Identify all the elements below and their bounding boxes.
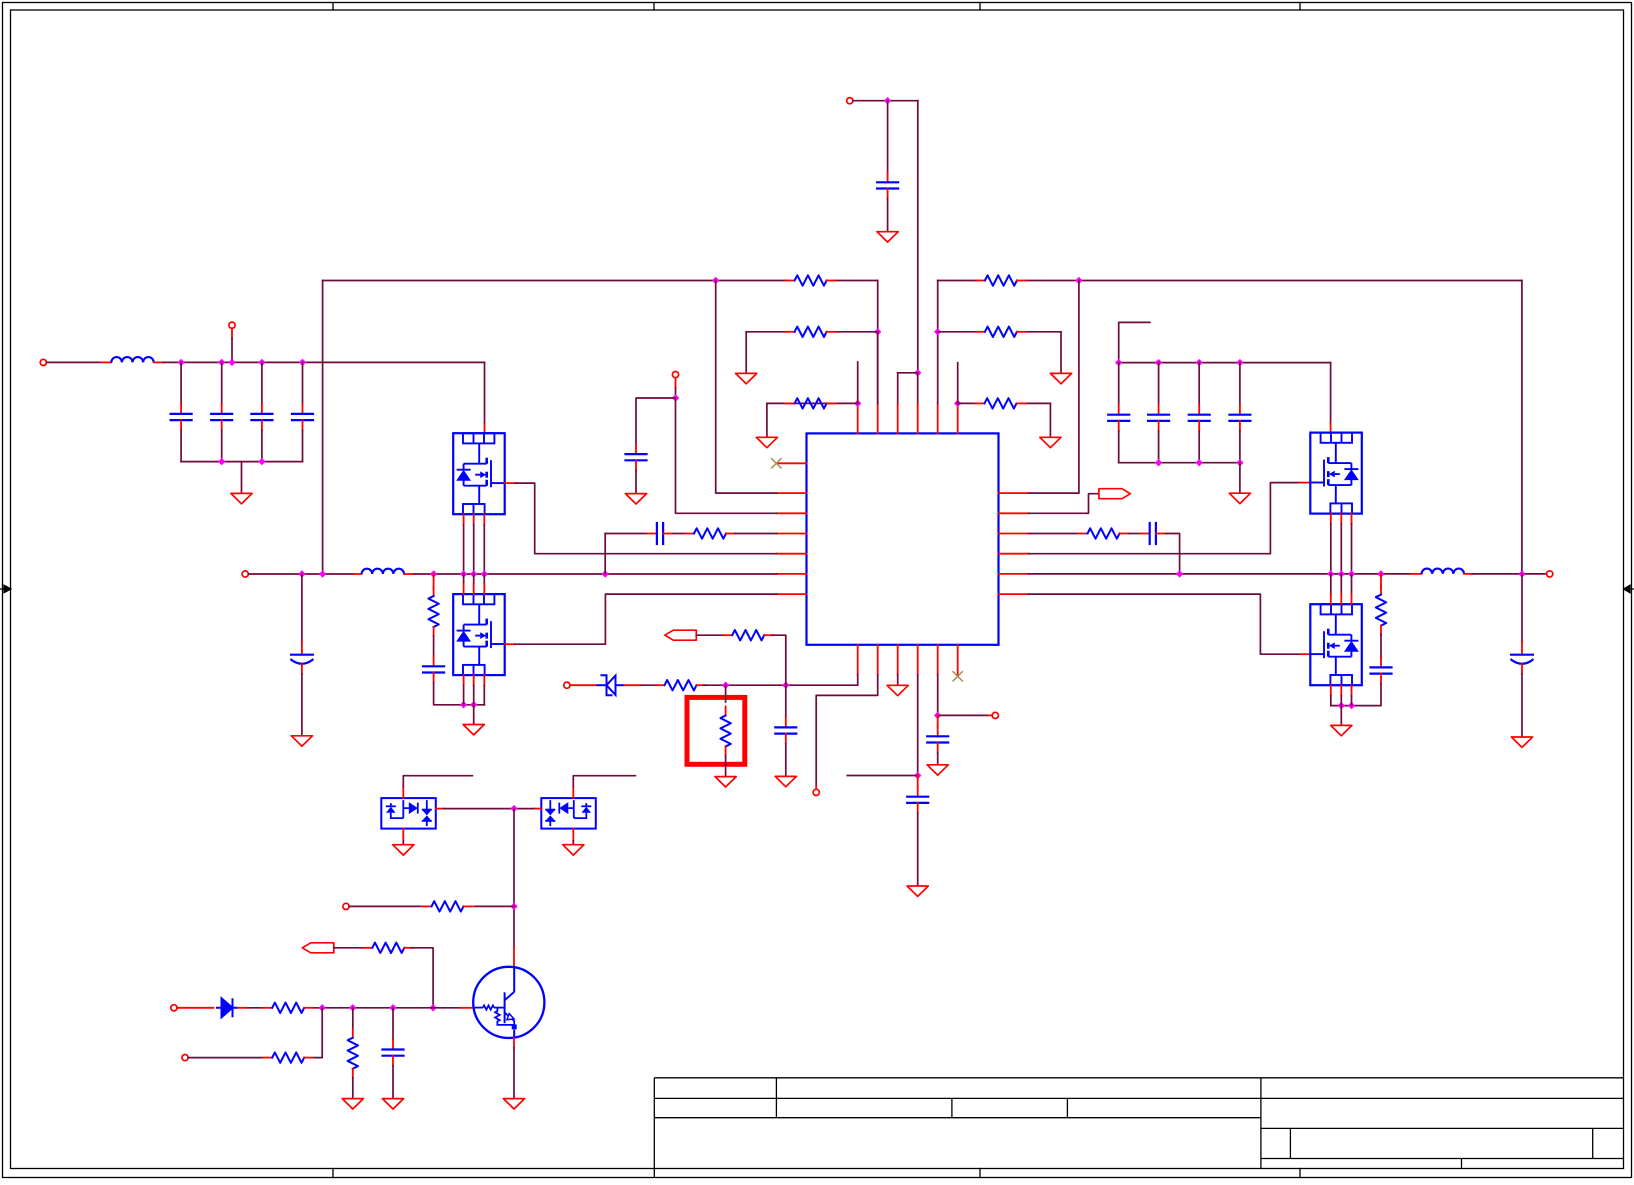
junction C6 (298, 570, 305, 577)
wire row2 left to ground (745, 332, 747, 373)
wire C16 to ground (785, 744, 787, 777)
junction J3 (228, 359, 235, 366)
ground row3 left (756, 437, 777, 447)
capacitor C8 (635, 444, 637, 454)
ground Q5 (503, 1099, 524, 1109)
wire row2 right (938, 331, 977, 333)
U1 right pin 5 (999, 573, 1029, 575)
wire output cap down (1521, 574, 1523, 642)
wire U1 to Q4 gate (1029, 594, 1301, 654)
wire Q4 source 2 (1340, 696, 1342, 706)
Q4 source pin 2 (1340, 685, 1342, 695)
wire top net down to IC (917, 101, 919, 373)
wire row3 right to ground (1049, 403, 1051, 437)
sheet connector arrow mid (665, 630, 697, 640)
wire to C14 (1239, 363, 1241, 405)
zone tick top 2 (653, 3, 655, 11)
Q4 drain pin 1 (1330, 574, 1332, 594)
zone tick top 4 (1299, 3, 1301, 11)
ground C19 (382, 1099, 403, 1109)
wire row3 right (958, 402, 977, 404)
junction Q pin c (481, 570, 488, 577)
wire SW rail right a (1029, 573, 1411, 575)
wire C3 to bottom rail (261, 430, 263, 461)
wire SW rail left a (248, 573, 353, 575)
wire input rail corner down to Q1 (484, 362, 486, 423)
op-amp U1 controller IC body (807, 433, 999, 644)
no-connect X left pin (771, 458, 781, 468)
wire Q5 emitter to ground (513, 1048, 515, 1098)
wire R15 corner to base row (411, 948, 433, 1008)
D3 top pin (572, 787, 574, 798)
zone tick top 1 (332, 3, 334, 11)
terminal J1 top (847, 98, 853, 104)
title block outline (654, 1078, 1623, 1178)
wire R8 to U1 (735, 533, 777, 535)
wire D1 to R11 (625, 684, 642, 686)
U1 top pin 5 (937, 403, 939, 433)
wire Q1 source 1 to SW rail (463, 525, 465, 574)
terminal J3 vin sense (229, 322, 235, 328)
diode D1 zener (597, 675, 625, 695)
Q2 drain pin 3 (483, 574, 485, 584)
U1 bottom pin 6 (957, 645, 959, 675)
diode D4 (216, 998, 238, 1017)
U1 bottom pin 3 (897, 645, 899, 675)
wire Q3 source 2 to SW rail (1340, 524, 1342, 574)
junction base row c (389, 1004, 396, 1011)
capacitor C12 (1158, 405, 1160, 415)
wire input cap bottom rail (181, 461, 302, 463)
wire C5 to ground (887, 199, 889, 232)
terminal J5 (672, 372, 678, 378)
wire C12 bottom (1158, 431, 1160, 463)
wire D3 to node (514, 808, 534, 810)
wire row1 right (938, 280, 977, 282)
junction Q pin b (470, 570, 477, 577)
wire R11 to U1 bottom net (704, 684, 858, 686)
capacitor C17 (917, 787, 919, 797)
junction pin4 net (914, 772, 921, 779)
ground C5 (877, 232, 898, 242)
wire U1 top pin2 riser (877, 332, 879, 404)
U1 left pin 7 (777, 593, 807, 595)
U1 top pin 6 (957, 403, 959, 433)
ground row2 right (1050, 373, 1071, 383)
terminal J12 (182, 1055, 188, 1061)
zone tick bottom 1 (332, 1169, 334, 1178)
wire C1 to bottom rail (180, 430, 182, 461)
wire pin5 to J9 (938, 714, 989, 716)
Q1 gate pin stub (505, 482, 516, 484)
U1 top pin 4 (917, 403, 919, 433)
capacitor C11 (1118, 405, 1120, 415)
junction snubber R7 (430, 570, 437, 577)
terminal J7 (564, 682, 570, 688)
resistor R17 (263, 1057, 272, 1059)
U1 right pin 4 (999, 553, 1029, 555)
wire R9 to C10 (1129, 533, 1140, 535)
wire R18 to ground (352, 1078, 354, 1099)
wire C19 to ground (392, 1066, 394, 1099)
terminal J8 (813, 789, 819, 795)
diode array D2 (381, 798, 436, 829)
wire Q2 source 3 (483, 686, 485, 705)
Q3 source pin 3 (1351, 514, 1353, 524)
junction Q pin a (460, 570, 467, 577)
wire J5 down (675, 378, 677, 388)
wire R17 corner to base row (314, 1008, 322, 1058)
wire C2 to bottom rail (221, 430, 223, 461)
wire to capacitor C5 (887, 101, 889, 173)
junction R12 top (722, 682, 729, 689)
ground U1 pin3 (887, 685, 908, 695)
Q2 source pin 2 (473, 675, 475, 685)
wire R13 corner down (772, 635, 786, 685)
junction right bank bottom 2 (1196, 459, 1203, 466)
D3 left pin (534, 808, 541, 810)
wire Q2 source 2 (473, 686, 475, 705)
ground input caps (231, 493, 252, 503)
transistor Q1 power MOSFET (453, 433, 505, 514)
D2 right pin (436, 808, 443, 810)
U1 bottom pin 2 (877, 645, 879, 675)
wire input rail (163, 361, 484, 363)
Q2 source pin 1 (463, 675, 465, 685)
junction RC right (1176, 570, 1183, 577)
wire C15 to source rail (1331, 684, 1381, 706)
junction row1 riser (319, 570, 326, 577)
junction base drive (510, 903, 517, 910)
Q5 collector stub (513, 947, 515, 967)
Q3 source pin 2 (1340, 514, 1342, 524)
wire row2 right to ground (1060, 332, 1062, 373)
Q2 drain pin 1 (463, 574, 465, 584)
U1 bottom pin 4 (917, 645, 919, 675)
wire C17 to ground (917, 813, 919, 886)
resistor R15 (363, 947, 372, 949)
U1 right pin 2 (999, 512, 1029, 514)
junction cap C2 (218, 359, 225, 366)
Q3 gate pin stub (1300, 482, 1310, 484)
junction right bank bottom 3 (1236, 459, 1243, 466)
Q4 drain pin 2 (1340, 574, 1342, 594)
wire to C3 (261, 362, 263, 403)
junction diode node (510, 805, 517, 812)
wire Q1 source 3 to SW rail (483, 525, 485, 574)
inductor L2 (354, 573, 362, 575)
resistor R8 (685, 533, 694, 535)
Q2 gate pin stub (505, 643, 515, 645)
ground C17 (907, 886, 928, 896)
wire to C12 (1158, 363, 1160, 405)
resistor R12 (725, 707, 727, 716)
sheet connector arrow right (1099, 489, 1131, 499)
diode array D3 (541, 798, 596, 829)
capacitor C13 (1198, 405, 1200, 415)
wire C11 bottom (1118, 431, 1120, 463)
resistor R7 snubber (433, 587, 435, 596)
wire J5 net to C8 (636, 398, 676, 444)
transistor Q2 power MOSFET (453, 594, 505, 675)
capacitor C5 (887, 172, 889, 182)
ground right bank (1229, 493, 1250, 503)
resistor R18 (352, 1029, 354, 1038)
Q1 source pin 2 (473, 514, 475, 524)
junction C16 top (782, 682, 789, 689)
wire C14 to ground (1521, 674, 1523, 737)
wire Q4 source 1 (1330, 696, 1332, 706)
Q2 drain pin 2 (473, 574, 475, 584)
wire right bank bottom rail (1119, 462, 1240, 464)
wire row1 right end down to SW rail (1521, 281, 1523, 574)
U1 right pin 1 (999, 492, 1029, 494)
junction C13 top (1196, 359, 1203, 366)
junction row3 right pin (954, 400, 961, 407)
U1 top pin 1 (857, 403, 859, 433)
wire to C4 (302, 362, 304, 403)
ground C14 (1511, 737, 1532, 747)
wire D2 to node (443, 808, 514, 810)
highlight box around R12 (687, 697, 745, 764)
wire node down to Q5 (513, 809, 515, 947)
junction row1 right (1075, 277, 1082, 284)
ground row2 left (736, 373, 757, 383)
wire Q2 source 1 (463, 686, 465, 705)
resistor R14 (423, 905, 432, 907)
resistor R6 (976, 402, 985, 404)
wire R12 to ground (725, 756, 727, 777)
capacitor C2 (221, 404, 223, 414)
wire C13 bottom (1198, 431, 1200, 463)
wire C14 bottom (1239, 431, 1241, 463)
capacitor C3 (261, 404, 263, 414)
wire C8 to ground (635, 470, 637, 493)
wire to C19 (392, 1008, 394, 1040)
junction row3 left pin (854, 400, 861, 407)
wire Q1 gate to U1 (515, 483, 776, 554)
U1 bottom pin 1 (857, 645, 859, 675)
U1 right pin 3 (999, 533, 1029, 535)
zone arrow right (1624, 585, 1634, 593)
transistor Q5 digital NPN (473, 967, 544, 1038)
junction base row a (319, 1004, 326, 1011)
wire R10 to C15 (1380, 635, 1382, 658)
junction top net (884, 97, 891, 104)
inductor L1 (101, 361, 111, 363)
wire bottom rail to ground (241, 462, 243, 494)
transistor Q4 power MOSFET (1310, 604, 1362, 685)
wire to C11 (1118, 363, 1120, 405)
junction J5 net (672, 394, 679, 401)
U1 left pin 4 (777, 533, 807, 535)
U1 left pin 1 (777, 462, 807, 464)
resistor R5 (976, 331, 985, 333)
junction Q3 pin c (1348, 570, 1355, 577)
D2 top pin (402, 787, 404, 798)
wire jog to pin (898, 372, 918, 374)
junction right bank bottom 1 (1155, 459, 1162, 466)
junction right source rail a (1338, 702, 1345, 709)
inductor L3 (1411, 573, 1422, 575)
zone tick top 3 (979, 3, 981, 11)
capacitor C19 (392, 1040, 394, 1050)
terminal J2 input (40, 359, 46, 365)
wire arrow to R13 (696, 634, 724, 636)
Q4 drain pin 3 (1351, 574, 1353, 594)
capacitor C1 (180, 404, 182, 414)
capacitor C4 (302, 404, 304, 414)
wire row1 left end down to SW rail (322, 281, 324, 575)
wire SW rail left b (414, 573, 776, 575)
zone arrow left (0, 585, 11, 593)
U1 bottom pin 5 (937, 645, 939, 675)
wire U1 to R9 (1029, 533, 1079, 535)
wire pin4 stub left (847, 775, 917, 777)
wire pin5 to C18 (937, 715, 939, 726)
Q1 source pin 1 (463, 514, 465, 524)
terminal J11 (171, 1005, 177, 1011)
wire arrow to R15 (334, 947, 366, 949)
ground D2 (393, 845, 414, 855)
wire RC left corner (605, 533, 647, 535)
junction RC sense left (602, 570, 609, 577)
U1 right pin 6 (999, 593, 1029, 595)
wire J3 down (231, 328, 233, 338)
resistor R3 (786, 402, 795, 404)
wire row3 left stub up (857, 362, 859, 403)
wire Q4 source 3 (1351, 696, 1353, 706)
U1 top pin 2 (877, 403, 879, 433)
U1 left pin 2 (777, 492, 807, 494)
ground C6 (291, 736, 312, 746)
wire J11 to D4 (177, 1007, 214, 1009)
wire SW rail right b (1472, 573, 1546, 575)
resistor R4 (976, 280, 985, 282)
wire J7 to D1 (570, 684, 596, 686)
junction bottom rail 2 (258, 458, 265, 465)
wire U1 pin2 to J8 (816, 675, 878, 786)
wire to R18 (352, 1008, 354, 1029)
Q1 source pin 3 (483, 514, 485, 524)
ground C16 (775, 776, 796, 786)
ground R18 (342, 1099, 363, 1109)
wire right bank to ground (1239, 463, 1241, 493)
capacitor C14 (1239, 405, 1241, 415)
junction Q3 pin a (1327, 570, 1334, 577)
junction output right (1518, 570, 1525, 577)
resistor R2 (786, 331, 795, 333)
no-connect X bottom pin (953, 671, 963, 681)
Q3 drain pin stub (1330, 423, 1332, 433)
zone tick bottom 2 (979, 1169, 981, 1178)
wire source rail to ground (473, 705, 475, 725)
wire U1 to Q3 gate (1029, 483, 1301, 554)
wire pin3 riser (897, 373, 899, 404)
capacitor C15 snubber (1380, 657, 1382, 667)
wire row1 left (323, 280, 787, 282)
junction snubber right (1377, 570, 1384, 577)
wire D2 top (403, 776, 472, 787)
ground D3 (563, 845, 584, 855)
junction Q3 pin b (1338, 570, 1345, 577)
wire row1-row2 right vertical (937, 281, 939, 404)
resistor R13 (723, 634, 732, 636)
junction C12 top (1155, 359, 1162, 366)
terminal J4 SW left (242, 571, 248, 577)
wire Q1 source 2 to SW rail (473, 525, 475, 574)
wire Q3 source 3 to SW rail (1351, 524, 1353, 574)
Q5 base stub (460, 1007, 473, 1009)
resistor R9 (1079, 533, 1088, 535)
D2 bottom pin (402, 829, 404, 841)
junction bottom rail 1 (218, 458, 225, 465)
wire C6 to ground (301, 674, 303, 736)
J8 stub (815, 786, 817, 789)
U1 left pin 3 (777, 512, 807, 514)
wire U1 pin5 down (937, 675, 939, 716)
Q5 emitter stub (513, 1038, 515, 1048)
wire C7 to source rail (434, 683, 485, 705)
junction pin5 net (934, 712, 941, 719)
Q1 drain pin stub (484, 423, 486, 433)
wire U1 pin4 down (917, 675, 919, 776)
zone tick bottom 3 (1299, 1169, 1301, 1178)
wire C6 down (301, 574, 303, 642)
wire C18 to ground (937, 753, 939, 765)
wire right bank to Q3 drain (1330, 363, 1332, 423)
ground C8 (625, 494, 646, 504)
wire J5 net to U1 pin (676, 398, 777, 513)
wire base row (314, 1007, 460, 1009)
wire right bank hook (1119, 322, 1150, 362)
junction cap C1 (177, 359, 184, 366)
wire row1 to row2 vertical (877, 281, 879, 404)
U1 left pin 5 (777, 553, 807, 555)
capacitor C14 polarized (1521, 642, 1523, 655)
junction base row R15 (429, 1004, 436, 1011)
capacitor C7 snubber (433, 656, 435, 666)
U1 top pin 3 (897, 403, 899, 433)
capacitor C6 polarized (301, 642, 303, 655)
D3 bottom pin (572, 829, 574, 841)
capacitor C18 (937, 726, 939, 736)
U1 left pin 6 (777, 573, 807, 575)
wire Q3 source 1 to SW rail (1330, 524, 1332, 574)
junction C11 top (1115, 359, 1122, 366)
Q4 source pin 3 (1351, 685, 1353, 695)
terminal J6 SW right (1547, 571, 1553, 577)
wire row1 right riser to U1 (1029, 281, 1079, 494)
wire top net (853, 100, 918, 102)
wire row2 left (746, 331, 786, 333)
ground R12 (715, 777, 736, 787)
resistor R11 (656, 684, 665, 686)
wire C4 to bottom rail (302, 430, 304, 461)
wire right bank top rail (1119, 362, 1331, 364)
transistor Q3 power MOSFET (1310, 433, 1362, 514)
junction row1 left (712, 277, 719, 284)
wire Q2 gate to U1 (515, 594, 777, 644)
junction C14 top (1236, 359, 1243, 366)
wire input to L1 (47, 361, 102, 363)
sheet connector arrow low (302, 943, 334, 953)
ground row3 right (1040, 437, 1061, 447)
capacitor C16 (785, 717, 787, 727)
wire to R12 (725, 685, 727, 702)
ground C18 (927, 765, 948, 775)
wire D3 top (573, 776, 635, 787)
